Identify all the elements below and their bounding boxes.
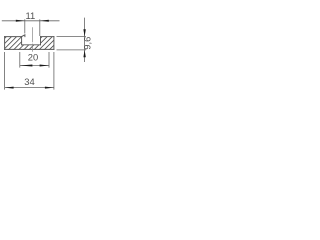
groove floor bbox=[22, 44, 41, 46]
extension line left bbox=[24, 19, 26, 33]
arrow right of 20 (points right) bbox=[40, 65, 49, 67]
centerline of groove hole bbox=[32, 27, 34, 52]
arrow bottom of 9,6 (points up) bbox=[83, 50, 85, 57]
groove left wall bbox=[21, 37, 23, 45]
dimension 20 (below groove) bbox=[20, 52, 49, 68]
dim line bbox=[2, 20, 60, 22]
svg-text:11: 11 bbox=[26, 10, 36, 21]
dimension 34 (bottom) bbox=[5, 52, 54, 90]
dim line bbox=[20, 65, 49, 67]
profile outline bbox=[5, 35, 54, 50]
top edge right block bbox=[41, 36, 54, 38]
groove right wall bbox=[40, 37, 42, 45]
lip spike on left block bbox=[22, 35, 25, 37]
right edge bbox=[53, 37, 55, 50]
extension line right bbox=[48, 52, 50, 68]
arrow left of 11 (points right) bbox=[16, 20, 25, 22]
hatching groove floor strip bbox=[0, 0, 89, 60]
dim line bbox=[84, 18, 86, 62]
arrow right of 34 (points right) bbox=[45, 87, 54, 89]
top edge left block bbox=[5, 36, 22, 38]
arrow left of 34 (points left) bbox=[5, 87, 14, 89]
hatching left block bbox=[0, 0, 74, 60]
extension line right bbox=[53, 52, 55, 90]
extension line top bbox=[57, 36, 87, 38]
hatching right block bbox=[19, 0, 105, 60]
arrow left of 20 (points left) bbox=[20, 65, 33, 67]
extension line bottom bbox=[57, 49, 87, 51]
extension line left bbox=[19, 52, 21, 68]
left edge bbox=[4, 37, 6, 50]
bottom edge bbox=[5, 48, 54, 50]
dimension 9,6 (right, vertical) bbox=[57, 18, 87, 62]
extension line left bbox=[4, 52, 6, 90]
extension line right bbox=[39, 19, 41, 36]
arrow top of 9,6 (points down) bbox=[83, 29, 85, 36]
dim line bbox=[5, 87, 54, 89]
svg-text:20: 20 bbox=[28, 52, 38, 63]
dimension 11 (top) bbox=[2, 19, 60, 36]
svg-text:9,6: 9,6 bbox=[82, 37, 93, 50]
svg-text:34: 34 bbox=[24, 76, 34, 87]
arrow right of 11 (points left) bbox=[40, 20, 49, 22]
